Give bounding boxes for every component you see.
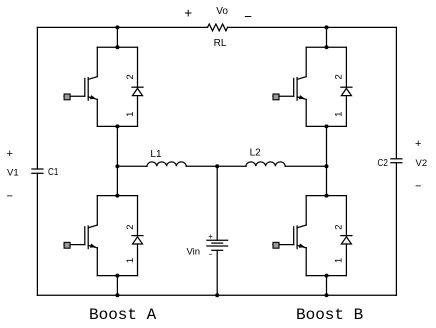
diode D1 (anti-parallel diode of Q1, on package right edge) — [132, 47, 143, 126]
wire: Q2 emitter to middle rail — [326, 126, 328, 166]
IGBT module Q4 (bottom-right): package outline — [306, 196, 346, 276]
svg-text:2: 2 — [125, 224, 136, 229]
gate terminal of Q2 — [273, 94, 279, 100]
junction dot: bottom rail / Vin- branch — [215, 293, 219, 297]
junction dot: Q1 emitter pin — [115, 124, 119, 128]
junction dot: top rail / Q1 branch — [115, 25, 119, 29]
svg-text:+: + — [415, 138, 421, 150]
svg-text:V2: V2 — [416, 158, 428, 169]
svg-text:2: 2 — [334, 74, 345, 79]
wire: Q3 emitter to bottom rail — [116, 276, 118, 296]
svg-text:−: − — [415, 181, 421, 193]
wire: bottom rail — [37, 294, 396, 296]
svg-text:+: + — [184, 5, 192, 20]
wire: middle rail center segment — [186, 165, 246, 167]
svg-text:Boost B: Boost B — [296, 306, 363, 324]
gate terminal of Q1 — [64, 94, 70, 100]
junction dot: node B (middle rail right, L2 input) — [325, 164, 329, 168]
svg-text:−: − — [208, 252, 212, 259]
svg-text:V1: V1 — [7, 168, 19, 179]
diode D4 (anti-parallel diode of Q4, on package right edge) — [341, 196, 352, 276]
svg-text:L1: L1 — [150, 149, 162, 160]
junction dot: Q1 collector pin — [115, 45, 119, 49]
wire: middle rail left segment — [117, 165, 147, 167]
wire: Vin negative terminal to bottom rail — [216, 250, 218, 295]
junction dot: Q3 emitter pin — [115, 274, 119, 278]
transistor Q2 IGBT symbol — [273, 77, 306, 101]
junction dot: Q3 collector pin — [115, 194, 119, 198]
wire: Q4 emitter to bottom rail — [326, 276, 328, 296]
svg-text:Boost A: Boost A — [89, 306, 157, 324]
svg-text:1: 1 — [334, 258, 345, 263]
wire: top rail to Q2 collector — [326, 27, 328, 47]
IGBT module Q1 (top-left): package outline — [97, 47, 137, 126]
junction dot: node Vin+ (middle rail center) — [215, 164, 219, 168]
svg-text:Vin: Vin — [187, 247, 201, 258]
gate terminal of Q4 — [273, 242, 279, 248]
wire: top rail right segment — [228, 26, 397, 28]
svg-text:−: − — [244, 9, 252, 24]
resistor RL — [208, 24, 228, 31]
wire: left bus upper — [36, 27, 38, 169]
svg-text:C2: C2 — [378, 158, 389, 169]
junction dot: Q4 emitter pin — [325, 274, 329, 278]
svg-text:RL: RL — [214, 38, 227, 49]
transistor Q3 IGBT symbol — [64, 225, 97, 249]
wire: left bus lower — [36, 173, 38, 295]
diode D3 (anti-parallel diode of Q3, on package right edge) — [132, 196, 143, 276]
inductor L2 — [246, 162, 285, 166]
wire: top rail left segment — [37, 26, 207, 28]
IGBT module Q2 (top-right): package outline — [306, 47, 346, 126]
capacitor C1 — [32, 169, 43, 173]
junction dot: bottom rail / Q4 branch — [325, 293, 329, 297]
svg-text:2: 2 — [334, 224, 345, 229]
diode D2 (anti-parallel diode of Q2, on package right edge) — [341, 47, 352, 126]
transistor Q4 IGBT symbol — [273, 225, 306, 249]
wire: right bus upper — [395, 27, 397, 158]
junction dot: Q2 emitter pin — [325, 124, 329, 128]
svg-text:1: 1 — [125, 112, 136, 117]
svg-text:1: 1 — [125, 258, 136, 263]
wire: middle rail to Q4 collector — [326, 166, 328, 195]
svg-text:1: 1 — [334, 112, 345, 117]
svg-text:C1: C1 — [48, 167, 59, 178]
svg-text:Vo: Vo — [216, 6, 228, 17]
inductor L1 — [147, 162, 186, 166]
wire: Q1 emitter to middle rail — [116, 126, 118, 166]
junction dot: node A (middle rail left, L1 input) — [115, 164, 119, 168]
junction dot: bottom rail / Q3 branch — [115, 293, 119, 297]
wire: middle rail to Q3 collector — [116, 166, 118, 195]
svg-text:L2: L2 — [250, 148, 262, 159]
wire: middle rail to Vin positive terminal — [216, 166, 218, 240]
battery Vin — [207, 240, 228, 250]
transistor Q1 IGBT symbol — [64, 77, 97, 101]
wire: middle rail right segment — [285, 165, 326, 167]
gate terminal of Q3 — [64, 242, 70, 248]
junction dot: Q2 collector pin — [325, 45, 329, 49]
wire: right bus lower — [395, 163, 397, 296]
svg-text:+: + — [7, 148, 13, 160]
junction dot: Q4 collector pin — [325, 194, 329, 198]
svg-text:−: − — [7, 191, 13, 203]
junction dot: top rail / Q2 branch — [325, 25, 329, 29]
svg-text:2: 2 — [125, 74, 136, 79]
IGBT module Q3 (bottom-left): package outline — [97, 196, 137, 276]
capacitor C2 — [391, 159, 402, 163]
svg-text:+: + — [208, 232, 213, 241]
wire: top rail to Q1 collector — [116, 27, 118, 47]
